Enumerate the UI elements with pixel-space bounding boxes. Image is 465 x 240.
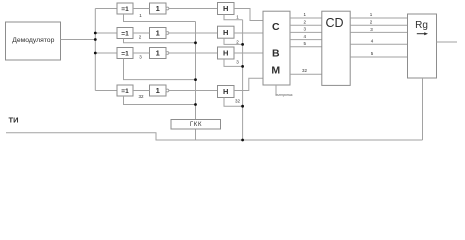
- svg-text:1: 1: [370, 12, 373, 17]
- wire xor3 to trigger3: [133, 52, 150, 54]
- wire SVM-CD 5: [290, 46, 322, 48]
- junction demod-bus: [94, 38, 97, 41]
- SVM sync stub: [275, 85, 277, 96]
- svg-text:=1: =1: [121, 88, 129, 95]
- wire bus to row2: [95, 32, 116, 34]
- svg-text:1: 1: [156, 86, 160, 95]
- svg-text:Н: Н: [223, 4, 228, 13]
- wire bus to row1: [95, 8, 116, 10]
- wire CD-Rg 1: [350, 17, 407, 19]
- trigger T2 row2: [150, 28, 167, 39]
- svg-text:В: В: [272, 47, 280, 59]
- svg-text:Н: Н: [223, 28, 228, 37]
- svg-text:1: 1: [156, 29, 160, 38]
- junction clockbus row3: [194, 78, 197, 81]
- svg-text:Демодулятор: Демодулятор: [12, 37, 54, 44]
- wire bus to row32: [95, 90, 116, 92]
- wire H3 output to SVM: [234, 52, 263, 54]
- svg-text:1: 1: [304, 12, 307, 17]
- wire xor2 feedback to clock bus: [124, 39, 196, 43]
- trigger T3 row3: [150, 48, 167, 59]
- sampler H1: [218, 3, 235, 15]
- wire xor3 feedback to clock bus: [124, 59, 196, 80]
- junction clockbus row2: [194, 41, 197, 44]
- sampler H3: [218, 47, 235, 59]
- wire H32 clock to strobe bus: [224, 98, 243, 107]
- xor gate D1 row1: [117, 3, 133, 14]
- inverter circle T1: [166, 7, 169, 10]
- wire bus to row3: [95, 52, 116, 54]
- wire H2 output to SVM: [234, 32, 263, 34]
- svg-text:CD: CD: [325, 16, 343, 30]
- wire Rg output: [437, 41, 458, 43]
- inverter circle T2: [166, 32, 169, 35]
- junction clockbus row32: [194, 103, 197, 106]
- svg-text:3: 3: [139, 55, 142, 60]
- svg-text:2: 2: [236, 40, 239, 45]
- xor gate D32 row32: [117, 85, 133, 96]
- junction strobebus row32: [241, 105, 244, 108]
- svg-text:5: 5: [371, 51, 374, 56]
- wire CD-Rg 5: [350, 56, 407, 58]
- svg-text:Н: Н: [223, 87, 228, 96]
- wire H1 clock to strobe bus: [224, 15, 243, 20]
- wire SVM-CD 32: [290, 73, 322, 75]
- wire SVM-CD 2: [290, 24, 322, 26]
- svg-text:3: 3: [236, 60, 239, 65]
- wire CD-Rg 4: [350, 43, 407, 45]
- svg-text:2: 2: [304, 19, 307, 24]
- wire Rg clock down: [422, 78, 424, 140]
- Rg register block: [408, 14, 437, 78]
- wire xor1 to trigger1: [133, 8, 150, 10]
- junction bus row3: [94, 52, 97, 55]
- svg-text:С: С: [272, 21, 280, 33]
- wire H1 output to SVM: [234, 9, 263, 21]
- junction strobebus row3: [241, 65, 244, 68]
- wire xor1 feedback to clock bus: [124, 14, 196, 22]
- trigger T1 row1: [150, 3, 167, 14]
- svg-text:1: 1: [156, 4, 160, 13]
- svg-text:4: 4: [371, 38, 374, 43]
- svg-text:32: 32: [235, 99, 241, 104]
- svg-text:Rg: Rg: [415, 20, 428, 31]
- inverter circle T3: [166, 52, 169, 55]
- svg-text:32: 32: [302, 68, 308, 73]
- demodulator box: [6, 22, 61, 60]
- wire xor32 feedback to clock bus: [124, 96, 196, 105]
- svg-text:синхрониз.: синхрониз.: [276, 93, 294, 97]
- svg-text:3: 3: [304, 27, 307, 32]
- svg-text:=1: =1: [121, 51, 129, 58]
- svg-text:2: 2: [139, 35, 142, 40]
- wire xor2 to trigger2: [133, 32, 150, 34]
- wire input bus vertical: [94, 9, 96, 91]
- wire CD-Rg 2: [350, 24, 407, 26]
- svg-text:5: 5: [304, 41, 307, 46]
- junction bus row2: [94, 32, 97, 35]
- wire H2 clock to strobe bus: [224, 38, 243, 44]
- svg-text:3: 3: [370, 27, 373, 32]
- wire trigger32 to H32: [169, 90, 218, 92]
- xor gate D2 row2: [117, 28, 133, 39]
- svg-text:1: 1: [139, 13, 142, 18]
- wire trigger1 to H1: [169, 8, 218, 10]
- wire SVM-CD 1: [290, 17, 322, 19]
- wire xor32 to trigger32: [133, 90, 150, 92]
- wire demod output: [61, 39, 96, 41]
- Rg shift arrow: [417, 32, 428, 35]
- junction strobebus rail: [241, 139, 244, 142]
- inverter circle T32: [166, 89, 169, 92]
- wire CD-Rg 3: [350, 31, 407, 33]
- sampler H2: [218, 26, 235, 38]
- svg-text:Н: Н: [223, 49, 228, 58]
- wire H3 clock to strobe bus: [224, 59, 243, 66]
- svg-text:1: 1: [156, 49, 160, 58]
- wire trigger3 to H3: [169, 52, 218, 54]
- xor gate D3 row3: [117, 48, 133, 59]
- wire GKK to TI rail: [195, 129, 197, 140]
- SVM block: [263, 11, 290, 85]
- junction strobebus row2: [241, 43, 244, 46]
- svg-text:=1: =1: [121, 31, 129, 38]
- svg-text:М: М: [271, 65, 280, 77]
- wire TI rail: [6, 133, 423, 140]
- wire SVM-CD 4: [290, 39, 322, 41]
- svg-text:ГКК: ГКК: [190, 122, 202, 128]
- GKK box: [171, 120, 221, 130]
- svg-text:32: 32: [138, 94, 144, 99]
- CD block: [322, 11, 350, 85]
- svg-text:=1: =1: [121, 6, 129, 13]
- wire clock bus vertical to GKK: [195, 22, 197, 120]
- sampler H32: [218, 86, 235, 98]
- wire H32 output to SVM: [234, 78, 263, 90]
- svg-text:4: 4: [304, 34, 307, 39]
- trigger T32 row32: [150, 85, 167, 96]
- wire SVM-CD 3: [290, 31, 322, 33]
- svg-text:2: 2: [370, 19, 373, 24]
- svg-text:ТИ: ТИ: [9, 115, 19, 124]
- wire strobe bus vertical: [242, 20, 244, 140]
- svg-text:1: 1: [236, 15, 239, 20]
- wire trigger2 to H2: [169, 32, 218, 34]
